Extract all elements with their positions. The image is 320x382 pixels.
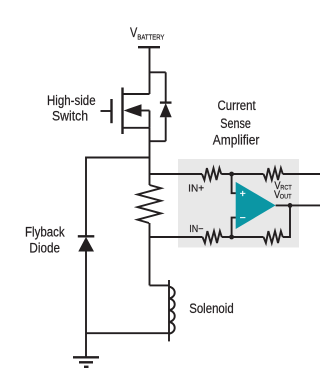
wire noninverting input stub <box>232 174 236 193</box>
diode D vertical bottom lead <box>165 117 167 141</box>
wire sense resistor to solenoid jog <box>149 223 151 285</box>
transistor Q1 body arrow <box>124 104 142 117</box>
diode D body-diode vertical top lead <box>165 72 167 102</box>
wire bottom rail to feedback corner <box>283 205 290 237</box>
wire jog to body diode top <box>150 71 166 73</box>
svg-text:Sense: Sense <box>220 116 251 131</box>
svg-text:RCT: RCT <box>280 184 291 191</box>
transistor Q1 body lead <box>141 110 150 112</box>
svg-text:IN−: IN− <box>189 224 203 235</box>
wire body to source <box>149 111 151 128</box>
amplifier shaded box <box>178 159 299 248</box>
node junction dot top <box>229 172 234 177</box>
node VBATTERY supply bar <box>138 46 160 48</box>
resistor R4 feedback bottom <box>264 231 283 243</box>
diode D2 flyback cathode bar <box>78 235 95 237</box>
wire IN+ top rail <box>150 173 203 175</box>
wire output to right edge <box>276 204 320 206</box>
ground symbol <box>73 357 99 367</box>
wire battery bar to drain branch <box>149 47 151 94</box>
svg-text:Amplifier: Amplifier <box>213 132 260 147</box>
resistor R1 input top <box>202 168 221 180</box>
transistor Q1 source stub <box>123 127 150 129</box>
wire solenoid top jog <box>150 284 170 286</box>
svg-text:Diode: Diode <box>29 241 60 256</box>
wire bottom horizontal to solenoid <box>86 332 169 334</box>
diode D cathode bar <box>160 101 172 103</box>
diode D body-diode triangle <box>160 103 172 117</box>
op-amp U1 <box>236 182 276 229</box>
wire top rail middle <box>221 173 263 175</box>
transistor Q1 gate bar <box>110 99 112 123</box>
svg-text:−: − <box>240 212 246 224</box>
inductor L1 solenoid <box>168 280 170 341</box>
svg-text:V: V <box>130 25 137 40</box>
node junction dot bottom <box>229 235 234 240</box>
wire body diode bottom jog <box>150 140 166 142</box>
transistor Q1 gate lead <box>101 110 112 112</box>
svg-text:IN+: IN+ <box>188 183 204 194</box>
svg-text:Flyback: Flyback <box>25 225 65 240</box>
wire source down to sense resistor <box>149 128 151 185</box>
svg-text:BATTERY: BATTERY <box>137 32 164 41</box>
wire left branch to flyback diode <box>86 158 150 237</box>
node junction dot output <box>288 203 293 208</box>
transistor Q1 drain stub <box>123 93 150 95</box>
diode D2 flyback triangle <box>78 237 94 252</box>
wire VRCT to right edge <box>283 173 320 175</box>
svg-text:+: + <box>240 188 246 200</box>
svg-text:Switch: Switch <box>52 109 88 124</box>
svg-text:Current: Current <box>218 98 256 113</box>
wire IN- bottom rail <box>150 236 203 238</box>
wire inverting input stub <box>232 218 236 237</box>
resistor Rsense <box>138 185 162 223</box>
svg-text:OUT: OUT <box>280 194 292 201</box>
svg-text:High-side: High-side <box>47 93 96 108</box>
resistor R2 input bottom <box>203 231 222 243</box>
wire bottom rail middle <box>222 236 264 238</box>
diode D2 flyback bottom lead <box>85 252 87 358</box>
resistor R3 feedback top <box>264 168 283 180</box>
svg-text:Solenoid: Solenoid <box>189 300 234 316</box>
transistor Q1 channel bar <box>121 88 123 135</box>
